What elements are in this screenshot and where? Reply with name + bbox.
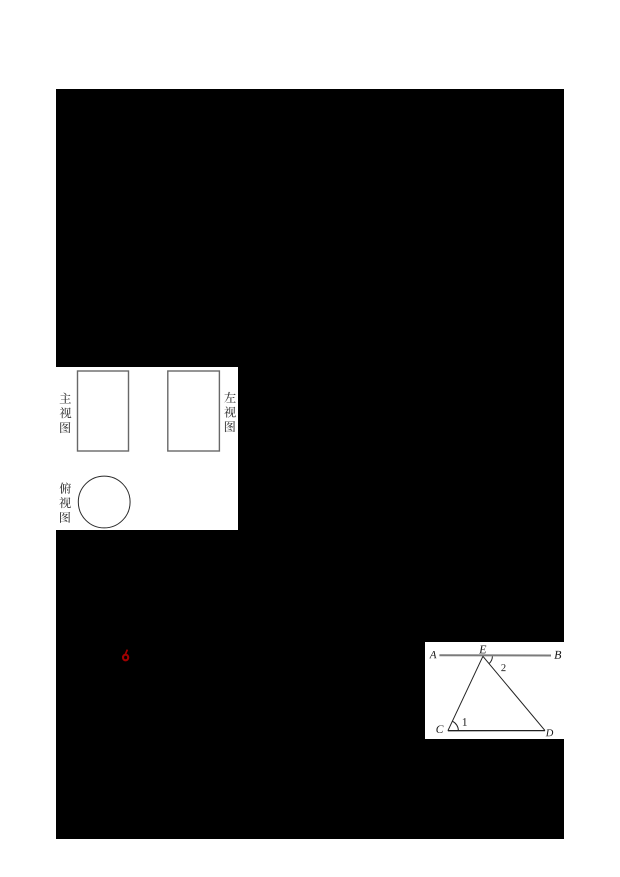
label E [479, 645, 486, 653]
side-view rectangle [168, 371, 220, 451]
label 图 [60, 422, 70, 433]
label 左 (left-view) [224, 392, 235, 403]
label C [436, 725, 443, 733]
label 视 [60, 407, 72, 418]
label 视 [224, 406, 236, 417]
black page scan background [56, 89, 564, 839]
top-view circle [78, 476, 130, 528]
label 图 [60, 512, 70, 523]
triangle base C-D [448, 730, 545, 732]
red pen mark (small handwritten 6) [118, 645, 134, 665]
angle 1 arc at C [452, 721, 458, 731]
white figure panel: triangle with parallel line [425, 642, 564, 739]
triangle side E-C [448, 656, 483, 730]
label 视 [59, 497, 71, 508]
line A-B [439, 654, 551, 656]
white figure panel: three-view drawing [56, 367, 238, 530]
angle label 1 [463, 718, 467, 726]
front-view rectangle [78, 371, 129, 451]
label A [429, 651, 436, 658]
label D [546, 729, 554, 736]
label 图 [225, 421, 235, 432]
label 主 (main-view) [60, 393, 71, 404]
label 俯 (top-view) [60, 482, 71, 493]
label B [554, 651, 561, 659]
angle 2 arc at E [489, 656, 492, 663]
angle label 2 [501, 664, 505, 671]
triangle side E-D [483, 656, 545, 730]
